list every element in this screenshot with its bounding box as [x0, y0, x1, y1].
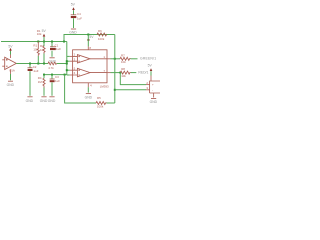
jack J1 ground pin	[153, 93, 155, 98]
comparator U2 box	[73, 50, 107, 83]
bus stub to U2 pin 5	[67, 69, 70, 71]
svg-text:5V: 5V	[148, 63, 153, 67]
junction top rail at U2 V+	[87, 34, 89, 36]
op-amp U1A V+ pin	[10, 55, 12, 59]
U2 upper input leads	[73, 56, 107, 61]
ground symbol under C1	[50, 57, 55, 59]
resistor R1 (vertical)	[37, 42, 39, 57]
capacitor C4 plates	[71, 14, 77, 16]
jack J1 pin1 stub	[146, 84, 150, 86]
svg-text:4.7k: 4.7k	[48, 66, 54, 70]
svg-text:LM393: LM393	[100, 85, 109, 89]
junction output1 at riser	[114, 58, 116, 60]
svg-text:100k: 100k	[97, 104, 104, 108]
junction on net IN at C1	[51, 41, 53, 43]
svg-text:5V: 5V	[71, 3, 76, 7]
wire riser (rail to R5)	[114, 35, 116, 104]
wire jack V+	[150, 71, 152, 75]
svg-text:+: +	[152, 83, 154, 87]
jack J1 body	[150, 81, 160, 93]
junction lower net at R4	[43, 74, 45, 76]
svg-text:GND: GND	[150, 100, 158, 104]
wire R4 top	[43, 75, 45, 79]
ground symbol under C4	[71, 28, 76, 30]
wire output2	[111, 72, 121, 74]
ground symbol under R4	[41, 96, 46, 98]
junction output at bus	[66, 63, 68, 65]
capacitor C3 plates	[50, 78, 55, 80]
U2 upper +/- marks	[78, 56, 79, 62]
svg-text:GND: GND	[26, 99, 34, 103]
wire op-amp V+	[10, 51, 12, 55]
svg-text:RED/1: RED/1	[138, 71, 148, 75]
bus stub to U2 pin 2	[67, 55, 70, 57]
jack J1 V+ pin	[150, 76, 152, 82]
svg-text:1uF: 1uF	[55, 79, 60, 83]
op-amp U1A V- pin	[10, 69, 12, 74]
junction riser at jack wire	[114, 89, 116, 91]
junction output at R1	[37, 63, 39, 65]
wire C3 to ground	[51, 82, 53, 95]
junction on net IN at R2	[43, 41, 45, 43]
wire C2 to ground	[29, 71, 31, 96]
wire U2 V+	[87, 35, 89, 47]
svg-text:GREEN/1: GREEN/1	[140, 57, 156, 61]
resistor R7 (horizontal)	[120, 57, 131, 60]
svg-text:5V: 5V	[42, 29, 47, 33]
wire drop from lower net to R5	[65, 75, 96, 103]
wire R2 bottom	[43, 54, 45, 64]
svg-text:1M: 1M	[38, 80, 43, 84]
wire op-amp output	[16, 63, 48, 65]
svg-text:GND: GND	[85, 95, 93, 99]
wire riser to jack pin2	[115, 89, 146, 91]
resistor R3 (series, horizontal)	[48, 62, 57, 65]
U2 V+ pin	[87, 46, 89, 49]
svg-text:1uF: 1uF	[77, 16, 82, 20]
svg-text:GND: GND	[7, 83, 15, 87]
supply arrow at R2	[43, 36, 45, 37]
polarized mark at U2 V+	[87, 39, 89, 41]
junction on net IN at VCC riser	[63, 41, 65, 43]
svg-text:R5: R5	[97, 96, 101, 100]
capacitor C1 plates	[50, 46, 56, 48]
wire lower net to comparator	[44, 74, 67, 76]
wire output1 to label	[131, 58, 138, 60]
wire output2 drop to jack pin1	[120, 73, 146, 85]
wire VCC riser to top rail	[64, 35, 115, 42]
wire R4 to ground	[43, 88, 45, 96]
U2 V- pin	[87, 83, 89, 87]
ground symbol under U2	[86, 93, 91, 95]
wire output1	[111, 58, 121, 60]
op-amp U1A triangle	[5, 57, 17, 69]
wire after series resistor R3	[57, 63, 67, 65]
svg-text:10k: 10k	[121, 60, 126, 64]
U2 lower input leads	[73, 70, 107, 75]
wire U2 V- to ground	[87, 87, 89, 92]
wire C3 top	[51, 75, 53, 79]
bus stub to U2 pin 6	[67, 74, 70, 76]
wire net IN (top-left horizontal)	[1, 41, 67, 43]
wire C4 top	[73, 10, 75, 14]
wire to GND under op-amp	[10, 74, 12, 80]
junction C2 / wire C2 top	[29, 64, 31, 68]
junction output at R2	[43, 63, 45, 65]
svg-text:100k: 100k	[98, 37, 105, 41]
junction bus pin5	[66, 69, 68, 71]
svg-text:1uF: 1uF	[56, 47, 61, 51]
junction on net IN at R1	[37, 41, 39, 43]
svg-text:GND: GND	[48, 99, 56, 103]
U2 lower comparator triangle	[77, 68, 90, 76]
wire bus corner down to comparator	[66, 42, 68, 76]
resistor R2 (vertical)	[43, 46, 45, 53]
resistor R5 (horizontal)	[96, 102, 107, 105]
ground symbol under op-amp	[8, 80, 13, 82]
svg-text:R8: R8	[121, 67, 125, 71]
ground symbol under C3	[49, 96, 54, 98]
U2 output pin 1 stub	[107, 58, 111, 60]
junction bus pin3	[66, 60, 68, 62]
U2 upper comparator triangle	[77, 55, 90, 63]
wire R2 top	[43, 42, 45, 47]
resistor R8 (horizontal)	[120, 71, 131, 74]
svg-text:GND: GND	[40, 99, 48, 103]
jack J1 pin2 stub	[146, 89, 150, 91]
wire output2 to label	[131, 72, 137, 74]
wire C1 top	[51, 42, 53, 48]
svg-text:10k: 10k	[121, 74, 126, 78]
svg-text:5V: 5V	[89, 35, 94, 39]
svg-text:R6: R6	[98, 29, 102, 33]
wire C1 bottom	[51, 51, 53, 57]
supply arrow C4	[73, 9, 75, 10]
junction output2 at drop	[119, 72, 121, 74]
U2 output pin 7 stub	[107, 72, 111, 74]
svg-text:.1uF: .1uF	[33, 69, 39, 73]
wire C4 to ground	[73, 18, 75, 28]
resistor R6 (horizontal, top rail)	[97, 33, 107, 36]
supply +5V arrow at op-amp	[10, 49, 12, 51]
supply arrow at jack	[150, 69, 152, 72]
junction lower net at C3	[51, 74, 53, 76]
svg-text:GND: GND	[69, 31, 77, 35]
U2 lower +/- marks	[78, 70, 79, 76]
ground symbol under jack	[151, 98, 156, 100]
ground symbol under C2	[27, 96, 32, 98]
bus stub to U2 pin 3	[67, 60, 70, 62]
svg-text:5V: 5V	[8, 44, 13, 48]
op-amp U1A +/- marks	[6, 59, 8, 66]
wire R1 bottom	[37, 56, 39, 64]
op-amp U1A input pin stubs	[2, 60, 4, 66]
svg-text:R7: R7	[121, 53, 125, 57]
junction output at C2	[29, 63, 31, 65]
junction lower net at drop	[64, 74, 66, 76]
svg-text:-: -	[152, 88, 153, 92]
wire supply to net IN	[43, 37, 45, 42]
wire from R5 to riser	[107, 102, 115, 104]
resistor R4 (vertical)	[43, 78, 45, 87]
capacitor C2 plates	[28, 67, 33, 69]
